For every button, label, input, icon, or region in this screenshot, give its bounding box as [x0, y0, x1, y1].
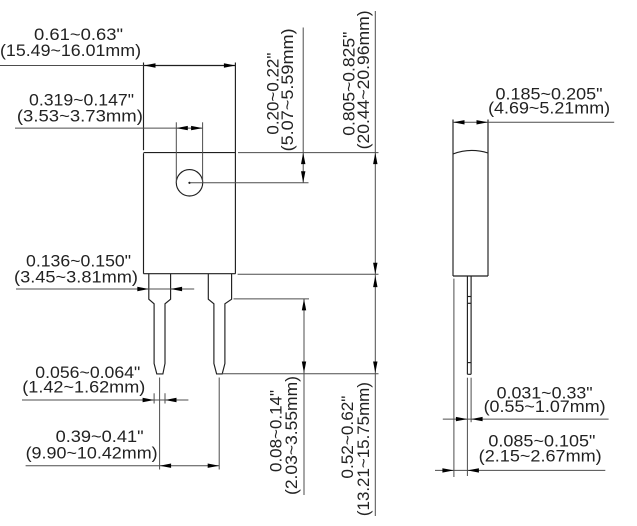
package side view body	[453, 120, 488, 277]
svg-text:(4.69~5.21mm): (4.69~5.21mm)	[488, 99, 610, 118]
svg-text:(20.44~20.96mm): (20.44~20.96mm)	[354, 10, 373, 149]
extension of body bottom to the right	[238, 273, 379, 275]
dimension: body width 0.61~0.63" top dim line	[0, 25, 235, 68]
extension line at lead tips to right	[222, 373, 378, 375]
svg-text:(2.15~2.67mm): (2.15~2.67mm)	[479, 447, 602, 466]
extension: lead left edge downward	[466, 378, 468, 476]
dimension: body thickness 0.185~0.205"	[453, 84, 614, 124]
svg-text:(0.55~1.07mm): (0.55~1.07mm)	[484, 397, 606, 416]
svg-text:(3.53~3.73mm): (3.53~3.73mm)	[17, 107, 143, 126]
extension line from hole center to right	[190, 182, 309, 184]
svg-text:(3.45~3.81mm): (3.45~3.81mm)	[14, 267, 138, 286]
dimension: lead offset 0.085~0.105"	[435, 432, 605, 473]
svg-text:(1.42~1.62mm): (1.42~1.62mm)	[22, 378, 145, 397]
dimension: lead shoulder width 0.136~0.150"	[14, 252, 194, 292]
package front view body outline	[144, 63, 236, 274]
side view lead	[467, 276, 471, 374]
dimension: hole center offset 0.20~0.22" vertical	[263, 28, 305, 183]
dimension: hole diameter 0.319~0.147"	[15, 91, 203, 183]
mounting hole	[176, 170, 202, 196]
dimension: body height 0.805~0.825" and lead length 0.52~0.62" shared leader	[338, 10, 377, 516]
lead 1 centerline extension	[159, 378, 161, 470]
svg-text:(15.49~16.01mm): (15.49~16.01mm)	[0, 41, 141, 60]
tab/body separation line	[144, 152, 236, 154]
extension: lead right edge downward	[470, 378, 472, 423]
dimension: lead width 0.056~0.064"	[22, 363, 188, 403]
svg-text:(2.03~3.55mm): (2.03~3.55mm)	[282, 376, 301, 495]
extension line from lead 2 shoulder end to right	[234, 298, 310, 300]
lead 2 (right)	[208, 274, 231, 374]
dimension: lead thickness 0.031~0.33"	[443, 384, 609, 422]
dimension: lead spacing 0.39~0.41"	[26, 427, 220, 468]
svg-text:(13.21~15.75mm): (13.21~15.75mm)	[354, 382, 373, 516]
svg-text:(9.90~10.42mm): (9.90~10.42mm)	[26, 444, 158, 463]
lead 2 centerline extension	[218, 378, 220, 470]
svg-text:(5.07~5.59mm): (5.07~5.59mm)	[278, 28, 297, 151]
extension of tab/body line to the right	[238, 152, 379, 154]
lead 1 (left)	[149, 274, 171, 374]
extension: side body left edge downward	[453, 279, 455, 477]
dimension: shoulder-to-tip 0.08~0.14" vertical	[267, 299, 307, 495]
